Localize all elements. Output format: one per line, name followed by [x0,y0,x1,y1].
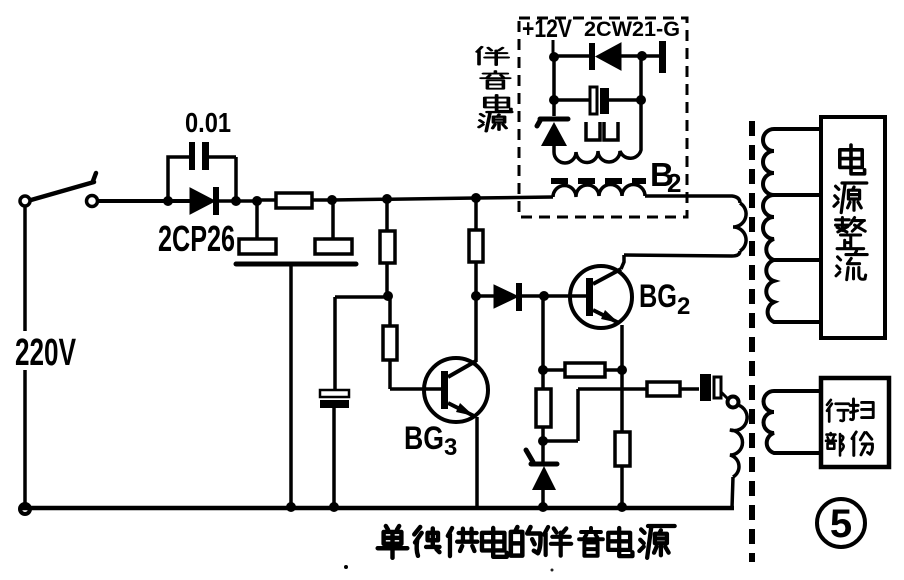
resistor R1 (series) [257,198,332,202]
node: junction C1 right leg [231,196,241,206]
capacitor C3 plate [315,239,352,254]
svg-text:2: 2 [677,293,690,320]
caption 单独供电的伴音电源 [378,526,408,558]
wire: left branch down [552,57,556,100]
node: junction C3 [327,195,337,205]
resistor R4 (collector load) [474,198,478,230]
capacitor C5 plate (solid) [700,374,711,401]
node: filter cap right junction [636,95,646,105]
node: emitter junction [617,365,627,375]
box: power rectifier unit [821,117,885,338]
scan speck [551,569,554,572]
label 行扫部份 (2x2) [827,400,849,422]
transistor BG2 emitter stroke with arrow [593,310,619,323]
wire: W4 bottom to BG2 collector [624,251,740,256]
wire: C4 to rail [332,408,336,506]
node: D4 cathode junction [637,51,647,61]
terminal eyelet [728,397,739,408]
winding W2 (secondary, humps down) [554,148,641,163]
node: filter cap left junction [549,95,559,105]
node: junction R4 top [471,193,481,203]
switch S1 fixed terminal [87,196,98,207]
transistor BG3 emitter stroke with arrow [448,403,474,416]
label 伴音电源 (vertical) [477,47,508,65]
svg-text:BG: BG [404,420,444,456]
ground rail [22,506,734,511]
svg-text:220V: 220V [15,332,76,374]
rail left terminal [20,504,30,514]
svg-text:0.01: 0.01 [185,107,231,138]
svg-text:2CP26: 2CP26 [158,218,235,259]
winding W6 secondary section 1 (rectifier) [763,129,821,195]
wire: left vertical lower [23,370,27,504]
svg-text:BG: BG [639,278,677,314]
capacitor C1 0.01 branch wires [168,157,236,201]
wire: node C to output line [543,389,647,441]
node: junction C2 [252,196,262,206]
wire: node down to BG3 collector [474,296,478,362]
resistor R7 (output series) [647,382,680,396]
capacitor C2 (electrolytic) lead [255,201,259,239]
zener D5 2CW21-G [552,100,556,116]
wire: main line into B2 [476,197,553,198]
capacitor C2 plate [239,239,276,254]
wire: BG3 emitter to rail [475,417,479,507]
winding W6 secondary section 3 [766,260,821,322]
node: junction for C1 left leg [163,196,173,206]
transistor BG3 body [424,358,488,422]
main transformer core (vertical dashes) [749,121,755,562]
node: BG3 collector / D2 anode [471,291,481,301]
winding W6 secondary section 2 [763,195,821,260]
resistor R6 (feedback divider) [541,370,545,389]
wire: base node down [541,296,545,370]
capacitor C4 (base bypass) top plate [320,390,349,397]
capacitor C5 plate (outline) [714,377,721,398]
transistor BG3 base bar [441,371,448,409]
svg-text:+12V: +12V [522,15,572,43]
wire: BG2 collector up to transformer [621,255,624,269]
resistor R8 (emitter to rail) [620,370,624,432]
switch S1 lever [31,173,96,200]
input terminal (upper left) [20,196,30,206]
output terminal bar [659,41,666,73]
transistor BG2 body [570,266,632,328]
svg-text:2CW21-G: 2CW21-G [584,18,680,41]
node: zener node C [538,436,548,446]
box: line scan unit [821,378,889,467]
resistor R5 (base-emitter) [543,368,622,372]
svg-text:5: 5 [830,502,852,546]
transistor BG3 collector stroke [448,361,476,377]
capacitor C1 plates [189,142,195,170]
capacitor C4 bottom plate [320,400,349,408]
wire: right branch [639,56,643,148]
zener D3 [541,441,545,464]
diode D4 (rectifier, points left) [554,54,590,58]
node: emitter resistor ground junction [617,502,627,512]
svg-text:2: 2 [667,168,681,198]
wire: B2 to main transformer [645,196,740,203]
capacitor C3 (electrolytic) lead [331,200,335,239]
diode D1 2CP26 [190,188,215,214]
wire: left vertical upper [23,206,27,331]
scan speck [344,565,348,569]
wire: BG2 emitter down [620,325,624,370]
node: zener ground junction [538,502,548,512]
wire: node to bypass cap [335,297,388,391]
winding W4 (primary top, humps toward core) [733,203,746,251]
node: BG2 base node [539,291,549,301]
wire: +12V stub [552,40,555,57]
resistor R3 (base series) [388,296,392,326]
node: BG3 base divider node [383,291,393,301]
resistor R2 (to BG3 base node) [385,199,389,231]
winding W7 (line-scan secondary) [764,391,822,453]
core symbol (double U) [586,122,618,140]
transistor BG2 base bar [586,278,593,316]
transformer B2 core dashes [551,178,646,184]
svg-text:3: 3 [444,434,457,461]
node: junction R2 top [382,194,392,204]
wire: base node to BG2 [544,294,586,298]
transistor BG2 collector stroke [593,269,621,284]
diode D2 (to BG2 base) [476,294,494,298]
wire: main line [332,198,476,200]
capacitor C2/C3 common plate [236,262,356,267]
winding W5 (lower primary, humps toward core) [730,405,747,477]
node: rail junction (C2/C3 ground) [286,502,296,512]
node: feedback node B [538,365,548,375]
node: +12V junction [549,52,559,62]
figure number circle 5 [817,499,865,547]
wire: C5 to terminal [721,392,728,399]
wire: R7 to C5 [680,387,699,391]
wire: switch to diode [98,199,190,203]
label 电源整流 (vertical) [840,145,865,174]
wire: W5 bottom to rail [732,477,733,508]
capacitor C6 (filter) [554,98,641,102]
winding W3 B2 (primary, humps up) [553,185,645,198]
wire [219,199,257,203]
wire: common plate to ground rail [289,266,293,506]
dashed enclosure (sound supply module) [519,18,687,217]
node: rail junction (C4 ground) [329,502,339,512]
